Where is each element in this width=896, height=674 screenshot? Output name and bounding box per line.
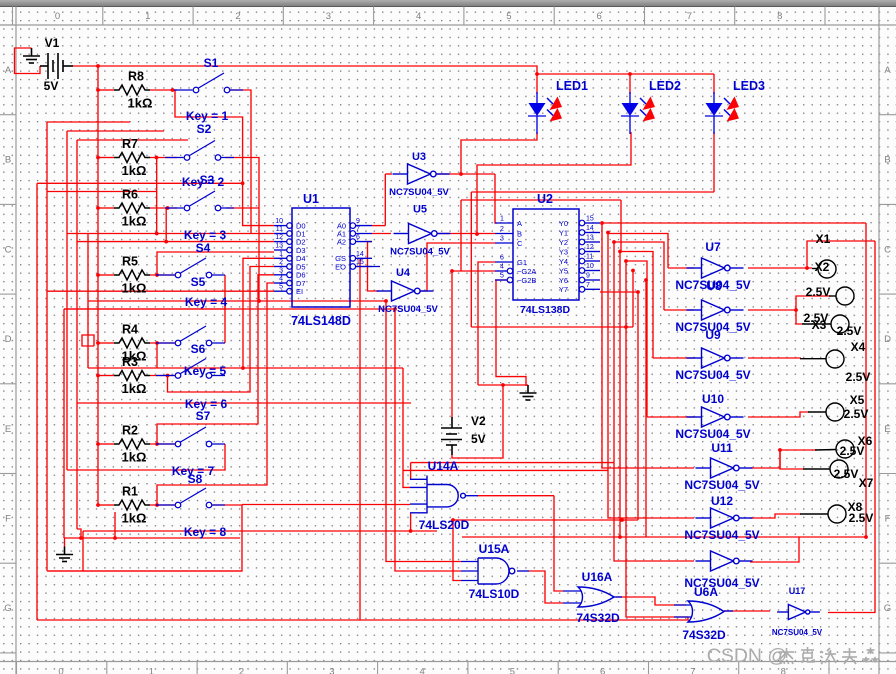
wire bus to R7	[98, 157, 114, 159]
wire U14A out to U16A	[554, 496, 563, 591]
svg-text:74S32D: 74S32D	[576, 611, 620, 625]
svg-text:15: 15	[586, 216, 594, 223]
wire S2S3 return down	[258, 209, 260, 301]
or-gate U16A	[578, 587, 614, 607]
junction Y0	[600, 221, 604, 225]
svg-text:5: 5	[510, 667, 515, 674]
junction bus row 4	[96, 273, 100, 277]
pin 1 D4 of U1	[274, 257, 287, 259]
svg-text:V2: V2	[471, 414, 486, 428]
svg-text:U4: U4	[396, 267, 411, 279]
svg-text:F: F	[885, 514, 891, 525]
switch S6	[156, 326, 225, 346]
svg-text:7: 7	[356, 226, 360, 233]
svg-text:S3: S3	[200, 173, 215, 187]
svg-text:Y6: Y6	[559, 276, 568, 285]
wire bus to R6	[98, 207, 114, 209]
svg-text:1kΩ: 1kΩ	[122, 511, 147, 526]
led LED1	[528, 92, 546, 134]
svg-text:U3: U3	[412, 151, 426, 163]
junction Y2	[612, 240, 616, 244]
wire U9 in	[653, 357, 694, 359]
resistor R6	[114, 203, 150, 213]
wire key8 long line	[83, 530, 437, 532]
resistor R4	[114, 338, 150, 348]
wire U5 out to U2 B	[438, 233, 495, 235]
probe stubs	[800, 269, 836, 515]
wire main +5V vertical bus	[97, 66, 99, 505]
junction y537 right	[864, 535, 868, 539]
pin 15 EO of U1	[350, 264, 356, 270]
svg-text:1: 1	[145, 11, 150, 22]
svg-text:G1: G1	[517, 258, 527, 267]
watermark CJK glyphs	[779, 648, 794, 664]
svg-text:Y0: Y0	[559, 219, 568, 228]
junction Y4	[624, 259, 628, 263]
svg-text:6: 6	[356, 234, 360, 241]
wire S8 row to U14A in3	[242, 504, 410, 506]
or-gate U6A	[688, 601, 724, 622]
pin 9 Y6 of U2	[579, 277, 585, 283]
junction bus row 7	[96, 442, 100, 446]
svg-text:4: 4	[416, 11, 421, 22]
junction tap row 5	[155, 341, 159, 345]
svg-text:C: C	[5, 244, 12, 255]
junction bus row 2	[96, 156, 100, 160]
svg-text:0: 0	[58, 667, 63, 674]
nand gate U15A 74LS10D	[478, 558, 515, 584]
svg-text:2.5V: 2.5V	[846, 370, 871, 384]
wire left stub y122	[47, 121, 130, 123]
svg-text:15: 15	[356, 259, 364, 266]
wire Y2 to U13	[614, 242, 694, 561]
switch S3	[165, 191, 234, 211]
wire y520 line	[453, 519, 638, 521]
wire S7 tap to U1 D6	[157, 275, 274, 444]
svg-text:R6: R6	[122, 188, 138, 202]
junction y309 line	[393, 307, 397, 311]
svg-text:B: B	[5, 155, 11, 166]
wire U3 out to U2 A	[495, 174, 497, 223]
pin 5 ~G2B of U2	[507, 277, 513, 283]
wire left stub y140	[77, 139, 188, 141]
wire LED3 anode	[713, 74, 715, 94]
svg-text:NC7SU04_5V: NC7SU04_5V	[675, 427, 750, 441]
svg-text:NC7SU04_5V: NC7SU04_5V	[772, 628, 823, 637]
svg-text:Y4: Y4	[559, 257, 568, 266]
wire key5 long line	[88, 367, 403, 369]
wire ground rail lower	[47, 570, 242, 572]
probe X4 circle	[826, 350, 844, 368]
wire Y3 down	[619, 252, 621, 538]
pin 9 A0 of U1	[350, 223, 356, 229]
wire U14A out	[477, 495, 554, 497]
svg-text:S5: S5	[191, 275, 206, 289]
nand gate U14A 74LS20D	[427, 476, 465, 514]
svg-text:V1: V1	[45, 36, 60, 50]
svg-text:Key = 5: Key = 5	[184, 364, 227, 378]
led LED3	[705, 92, 723, 134]
junction y301	[257, 299, 261, 303]
wire ground rail upper	[65, 537, 241, 539]
pin 12 Y3 of U2	[579, 249, 585, 255]
probe X2 circle	[818, 260, 836, 278]
wire long line y192	[471, 191, 714, 193]
svg-text:E: E	[5, 424, 11, 435]
svg-text:G: G	[4, 603, 11, 614]
led LED1 arrows	[547, 97, 562, 122]
svg-text:3: 3	[279, 267, 283, 274]
junction Y1	[606, 231, 610, 235]
wire U16A out to U6A	[616, 597, 686, 605]
wire right vertical x875	[874, 241, 876, 613]
svg-text:R4: R4	[122, 323, 138, 337]
junction X1 branch	[805, 266, 809, 270]
wire drop x461 to G2A	[460, 200, 462, 271]
junction LED2 anode	[628, 72, 632, 76]
wire G1 down	[478, 262, 495, 385]
svg-text:5V: 5V	[44, 79, 59, 93]
svg-text:Key = 4: Key = 4	[185, 295, 228, 309]
junction Y3	[618, 250, 622, 254]
svg-text:11: 11	[586, 254, 593, 261]
wire U8 out to X2 probe	[748, 296, 831, 310]
junction U3 output	[459, 172, 463, 176]
wire to U3 input	[385, 173, 392, 175]
resistor R2	[114, 439, 150, 449]
wire key6 long line	[77, 402, 411, 404]
svg-text:Key = 1: Key = 1	[186, 109, 229, 123]
svg-text:2: 2	[500, 226, 504, 233]
svg-text:U2: U2	[537, 192, 553, 206]
wire R to S row 4	[150, 274, 177, 276]
wire S2 return to S3	[225, 158, 259, 210]
svg-text:13: 13	[586, 235, 594, 242]
wire V1 minus to ground	[15, 48, 41, 74]
inverter U9	[687, 348, 744, 368]
pin 11 D1 of U1	[274, 233, 287, 235]
pin 10 D0 of U1	[274, 225, 287, 227]
svg-text:74LS20D: 74LS20D	[419, 518, 470, 532]
wire to U15A in3	[453, 520, 461, 581]
svg-text:4: 4	[419, 667, 424, 674]
led LED3 arrows	[724, 97, 739, 122]
svg-text:Y7: Y7	[559, 285, 568, 294]
svg-text:U10: U10	[702, 392, 724, 406]
led LED2 arrows	[640, 97, 655, 122]
svg-text:2.5V: 2.5V	[849, 511, 874, 525]
wire U13 out up to y537 line	[750, 537, 799, 562]
svg-text:11: 11	[276, 226, 283, 233]
wire V1 plus to bus	[73, 65, 98, 67]
junction y327	[624, 325, 628, 329]
wire stub to ground rail	[114, 512, 116, 538]
wire key4 long line	[88, 300, 386, 302]
svg-text:A: A	[5, 65, 12, 76]
wire LED1 anode	[536, 74, 538, 94]
svg-text:2.5V: 2.5V	[844, 407, 869, 421]
svg-text:2.5V: 2.5V	[834, 467, 859, 481]
svg-text:5: 5	[500, 273, 504, 280]
wire S6 tap down	[156, 343, 158, 368]
svg-text:74S32D: 74S32D	[682, 628, 726, 642]
svg-text:LED2: LED2	[649, 79, 681, 93]
battery V1	[40, 53, 73, 79]
wire key3 line to U1 D2	[77, 241, 274, 243]
wire S7 return	[224, 444, 226, 470]
junction y537	[618, 535, 622, 539]
svg-text:6: 6	[600, 667, 605, 674]
wire drop x471	[470, 192, 472, 327]
svg-text:B: B	[884, 155, 890, 166]
svg-text:U9: U9	[705, 328, 721, 342]
ground mid	[520, 385, 537, 400]
svg-text:14: 14	[356, 251, 364, 258]
probe X3 circle	[831, 315, 849, 333]
probe X2b circle	[836, 287, 854, 305]
svg-text:D: D	[884, 334, 891, 345]
wire R to S row 5	[150, 342, 177, 344]
svg-text:S7: S7	[196, 409, 211, 423]
wire U15A out to U16A	[529, 571, 563, 603]
junction bus row 6	[96, 374, 100, 378]
ic U1 74LS148D box	[292, 208, 350, 307]
wire U7 out to X2 probe	[748, 267, 812, 269]
wire feed line at y470	[403, 469, 608, 471]
wire R to S row 8	[150, 504, 177, 506]
wire to U14A in2	[403, 368, 410, 487]
wire long line y200	[461, 199, 621, 201]
wire feed line to U14A in1	[411, 462, 614, 464]
svg-text:7: 7	[690, 667, 695, 674]
svg-text:9: 9	[356, 218, 360, 225]
wire to U1 EI	[47, 290, 274, 292]
wire long line y309	[64, 308, 395, 310]
junction V2 minus	[501, 383, 505, 387]
wire R to S row 6	[150, 375, 177, 377]
svg-text:U7: U7	[705, 240, 721, 254]
svg-text:3: 3	[329, 667, 334, 674]
svg-text:S1: S1	[204, 56, 219, 70]
svg-text:1kΩ: 1kΩ	[122, 214, 147, 229]
svg-text:U12: U12	[711, 494, 733, 508]
resistor R3	[114, 371, 150, 381]
wire S8 tap to U1 D7	[157, 283, 274, 505]
svg-text:X5: X5	[850, 393, 865, 407]
pin 7 A1 of U1	[350, 231, 356, 237]
svg-text:1kΩ: 1kΩ	[128, 96, 153, 111]
wire y327 line	[471, 326, 633, 328]
pin 3 D6 of U1	[274, 274, 287, 276]
junction V1 bus	[96, 64, 100, 68]
switch	[156, 488, 225, 508]
resistor R8	[114, 85, 150, 95]
svg-text:LED1: LED1	[556, 79, 588, 93]
inverter U17	[777, 605, 820, 620]
svg-text:0: 0	[55, 11, 60, 22]
wire left bus x37	[36, 183, 38, 620]
junction Y6	[644, 278, 648, 282]
svg-text:U15A: U15A	[479, 542, 510, 556]
wire Y1 to U12	[608, 233, 694, 519]
wire R to S row 7	[150, 443, 177, 445]
svg-text:13: 13	[275, 243, 283, 250]
probe X7 circle	[830, 460, 848, 478]
svg-text:1kΩ: 1kΩ	[122, 450, 147, 465]
svg-text:C: C	[517, 239, 523, 248]
svg-text:NC7SU04_5V: NC7SU04_5V	[378, 304, 438, 315]
wire U8 in	[664, 309, 694, 311]
svg-text:3: 3	[326, 11, 331, 22]
svg-text:1: 1	[500, 216, 504, 223]
svg-text:U14A: U14A	[428, 459, 459, 473]
pin 11 Y4 of U2	[579, 258, 585, 264]
junction tap row 4	[155, 273, 159, 277]
svg-text:EI: EI	[296, 287, 303, 296]
switch S7	[156, 427, 225, 447]
svg-text:5: 5	[506, 11, 511, 22]
svg-text:1kΩ: 1kΩ	[122, 163, 147, 178]
junction key8 line	[409, 529, 413, 533]
svg-text:74LS10D: 74LS10D	[469, 587, 520, 601]
svg-text:4: 4	[279, 276, 283, 283]
svg-text:U6A: U6A	[694, 585, 718, 599]
wire V2 minus loop	[452, 385, 503, 458]
inverter U4	[377, 281, 434, 301]
junction ground rail a	[79, 536, 83, 540]
wire R to S row 2	[150, 157, 177, 159]
wire right vertical x866	[865, 223, 867, 537]
svg-text:7: 7	[687, 11, 692, 22]
wire feed U8	[614, 242, 664, 310]
svg-text:R3: R3	[122, 355, 138, 369]
ground for V1	[23, 48, 40, 63]
svg-text:B: B	[517, 229, 522, 238]
junction bus row 5	[96, 341, 100, 345]
led LED2	[621, 92, 639, 134]
svg-text:CSDN @: CSDN @	[707, 645, 787, 667]
svg-text:8: 8	[781, 667, 786, 674]
svg-text:X1: X1	[816, 232, 831, 246]
junction ground rail b	[113, 536, 117, 540]
junction bus row 1	[96, 88, 100, 92]
wire X1 branch up	[807, 241, 875, 268]
wire bus to R3	[98, 375, 114, 377]
svg-text:G: G	[884, 603, 891, 614]
resistor R5	[114, 270, 150, 280]
pin 13 D3 of U1	[274, 249, 287, 251]
wire branch to X3 probe	[796, 310, 802, 324]
wire key2 long line	[37, 182, 243, 184]
wire U10 out to X5 probe	[748, 412, 809, 417]
junction tap row 1	[171, 88, 175, 92]
switch S5	[156, 258, 225, 278]
pin 1 A of U2	[495, 222, 513, 224]
wire key2 line to U1 D1	[67, 233, 274, 235]
svg-text:14: 14	[586, 225, 594, 232]
svg-text:4: 4	[500, 264, 504, 271]
wire line y191	[47, 191, 157, 193]
wire LED2 cathode to B net	[477, 132, 631, 234]
svg-text:74LS148D: 74LS148D	[291, 314, 351, 328]
svg-text:3: 3	[500, 236, 504, 243]
wire Y7 stub extension	[600, 291, 638, 293]
switch S1	[174, 73, 243, 93]
svg-text:U8: U8	[706, 279, 722, 293]
svg-text:R2: R2	[122, 424, 138, 438]
svg-text:6: 6	[597, 11, 602, 22]
wire Y4 to U6A	[626, 261, 688, 617]
junction LED1 anode	[535, 72, 539, 76]
svg-text:74LS138D: 74LS138D	[520, 304, 571, 316]
wire U7 in	[668, 267, 694, 269]
svg-text:Key = 8: Key = 8	[184, 525, 227, 539]
svg-text:D: D	[5, 334, 12, 345]
wire branch to X7 probe	[780, 450, 804, 469]
wire S5 tap to U1 D3	[157, 252, 274, 275]
svg-text:7: 7	[586, 282, 590, 289]
svg-text:12: 12	[586, 244, 594, 251]
wire feed U10	[626, 261, 647, 417]
wire left bus x83	[82, 531, 84, 571]
wire LED3 cathode down	[713, 132, 715, 192]
wire row6 tap to U1 D5	[168, 267, 275, 393]
svg-text:NC7SU04_5V: NC7SU04_5V	[390, 247, 450, 258]
wire bus to R4	[98, 342, 114, 344]
resistor R7	[114, 153, 150, 163]
inverter U8	[687, 300, 744, 320]
wire V2 plus vertical	[451, 271, 453, 417]
svg-text:U17: U17	[789, 586, 806, 596]
svg-text:8: 8	[777, 11, 782, 22]
svg-text:9: 9	[586, 273, 590, 280]
wire S3 right extension	[226, 207, 259, 209]
svg-text:2: 2	[239, 667, 244, 674]
svg-text:Y2: Y2	[559, 238, 568, 247]
wire U4 out to U2 C	[420, 243, 495, 291]
svg-text:LED3: LED3	[733, 79, 765, 93]
wire +5V rail to LED anodes	[98, 66, 714, 74]
inverter U12	[696, 508, 753, 528]
wire U11 out to X6 probe	[750, 450, 817, 468]
wire LED1 cathode to U3 out	[461, 132, 537, 174]
junction tap row 3	[166, 206, 170, 210]
switch	[156, 359, 225, 379]
wire GS down mid vertical	[359, 258, 361, 620]
svg-text:2.5V: 2.5V	[837, 324, 862, 338]
junction y520	[620, 518, 624, 522]
junction B net	[475, 232, 479, 236]
pin 14 GS of U1	[350, 255, 356, 261]
junction tap row 8	[155, 503, 159, 507]
svg-text:NC7SU04_5V: NC7SU04_5V	[389, 187, 449, 198]
wire Y0 long line to right	[602, 222, 866, 224]
wire to mid ground	[478, 384, 528, 386]
svg-text:NC7SU04_5V: NC7SU04_5V	[684, 528, 759, 542]
svg-text:~G2B: ~G2B	[517, 276, 536, 285]
svg-text:R8: R8	[128, 70, 144, 84]
svg-text:F: F	[5, 514, 11, 525]
wire G2B down to ground	[496, 280, 526, 386]
svg-text:1: 1	[279, 251, 283, 258]
junction bus row 8	[96, 503, 100, 507]
svg-text:Y3: Y3	[559, 247, 568, 256]
wire Y7 down	[637, 292, 639, 520]
junction key5	[241, 366, 245, 370]
pin 3 C of U2	[495, 242, 513, 244]
svg-text:6: 6	[500, 255, 504, 262]
pin 12 D2 of U1	[274, 241, 287, 243]
